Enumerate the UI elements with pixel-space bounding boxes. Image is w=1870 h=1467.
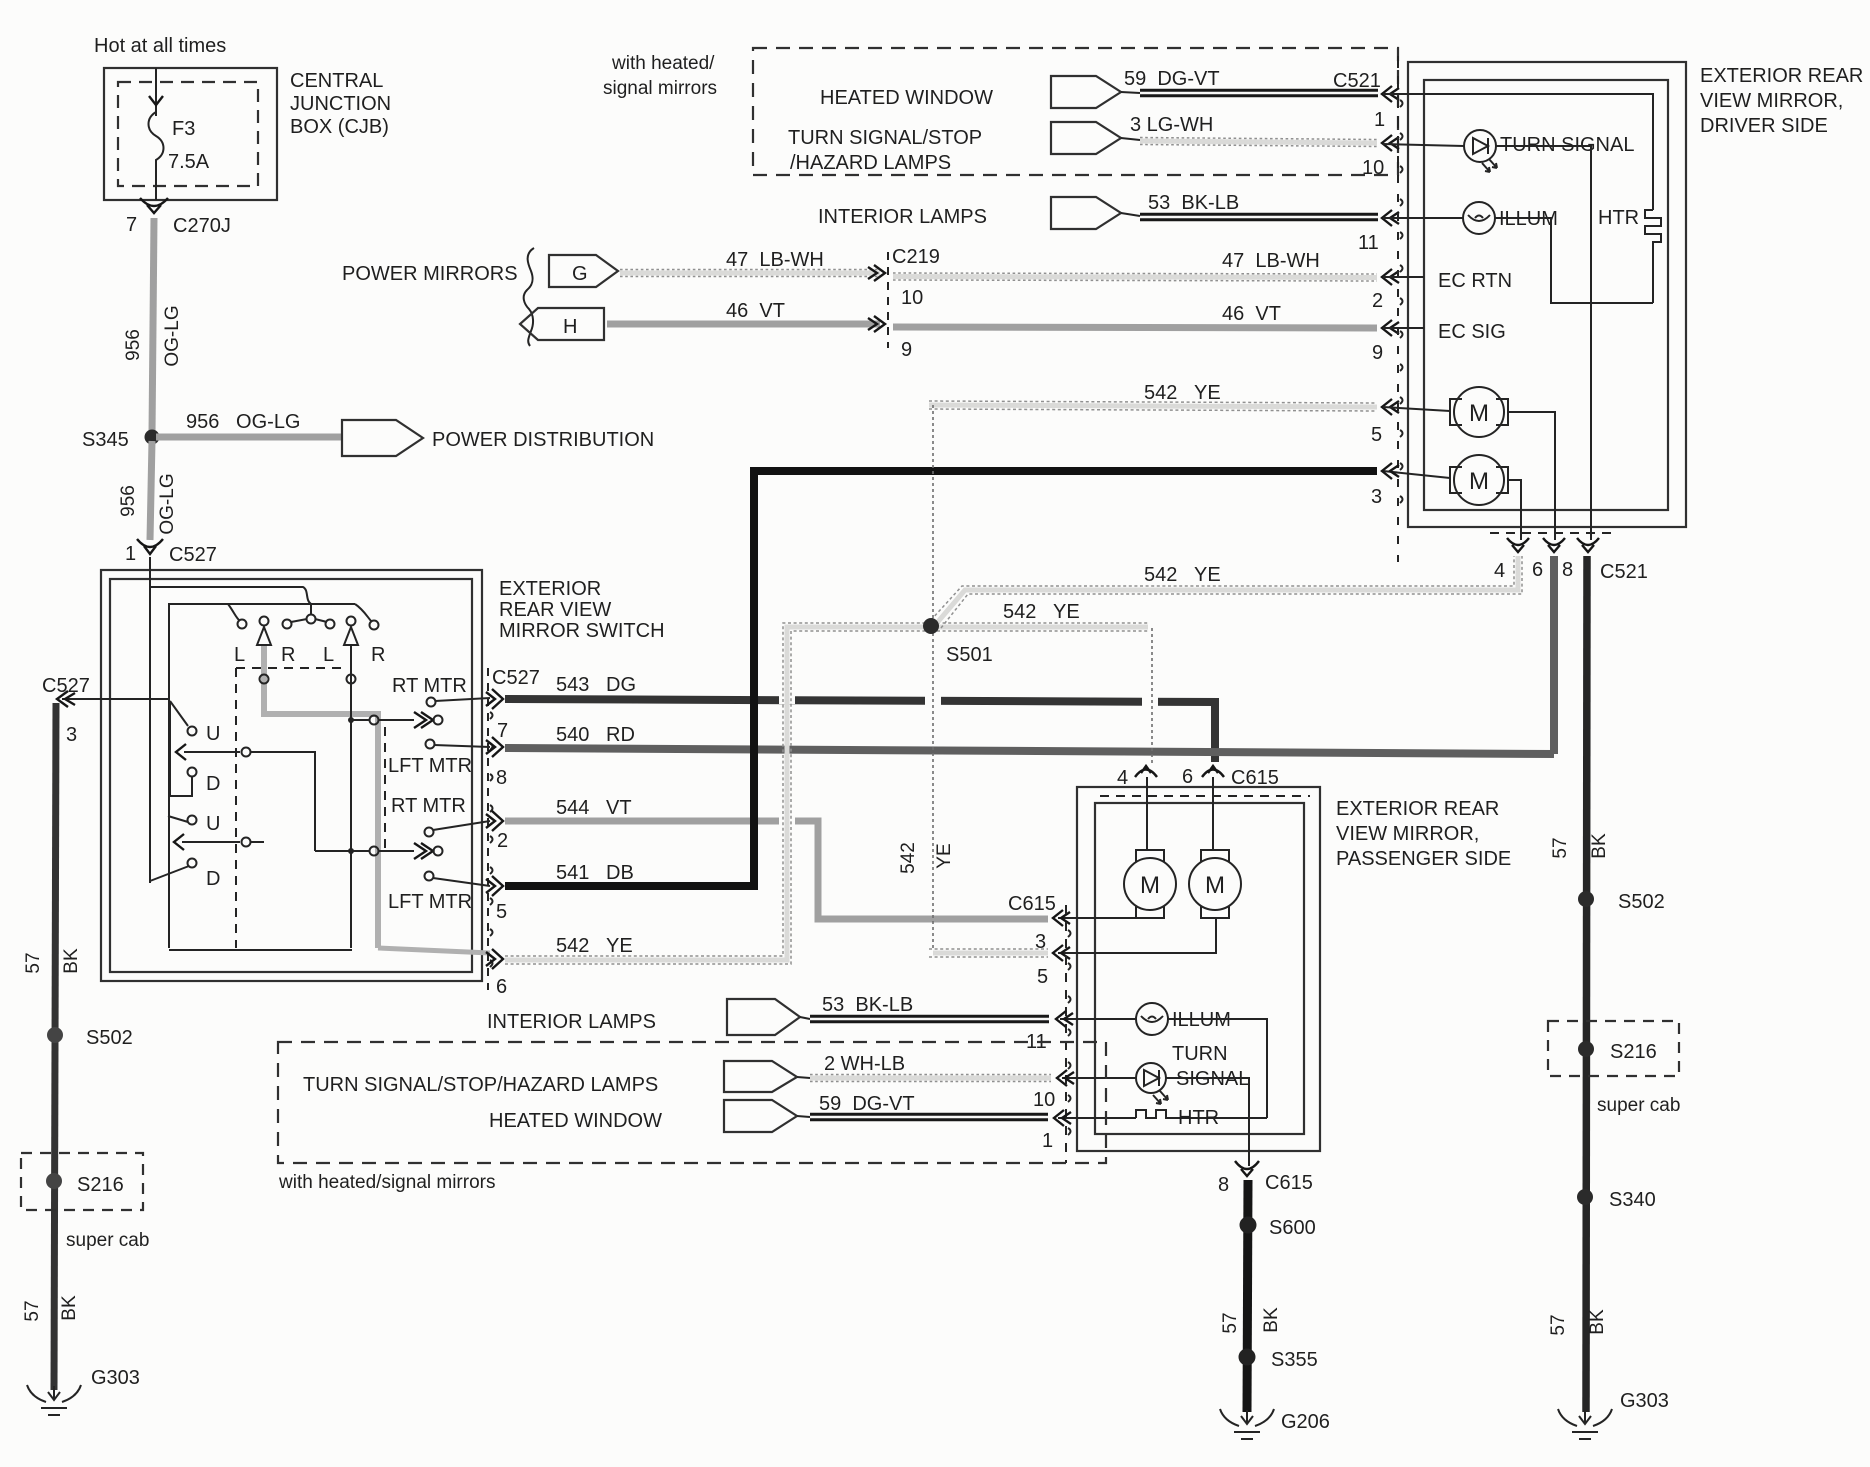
svg-text:VIEW MIRROR,: VIEW MIRROR, [1700, 90, 1843, 112]
wire crossing gaps [779, 699, 1158, 821]
splice S216 (left) [46, 1173, 62, 1189]
svg-text:542 YE: 542 YE [1144, 382, 1221, 404]
svg-text:956 OG-LG: 956 OG-LG [186, 411, 301, 433]
interior lamps connector pentagon (bottom) [727, 999, 800, 1035]
svg-text:HTR: HTR [1178, 1107, 1219, 1129]
svg-text:544 VT: 544 VT [556, 797, 632, 819]
connector C521 dashed line [1397, 56, 1399, 175]
C521 lower dashed line [1490, 532, 1614, 534]
C521 pin 4 arrow (bottom) [1507, 538, 1529, 552]
C521 pin 3 arrow [1382, 463, 1399, 479]
connector C527 tick marks [490, 712, 493, 967]
central junction box CJB inner dashed box [118, 82, 258, 186]
svg-text:542: 542 [898, 842, 919, 874]
svg-text:5: 5 [496, 901, 507, 923]
svg-text:M: M [1469, 468, 1489, 495]
svg-text:S502: S502 [1618, 891, 1665, 913]
svg-text:5: 5 [1371, 424, 1382, 446]
svg-text:9: 9 [901, 339, 912, 361]
selector arrow L2 [344, 627, 358, 645]
wiper line lower (LFT MTR) [315, 850, 369, 852]
svg-text:PASSENGER SIDE: PASSENGER SIDE [1336, 848, 1511, 870]
svg-text:POWER DISTRIBUTION: POWER DISTRIBUTION [432, 429, 654, 451]
wire 3 LG-WH [1140, 141, 1377, 143]
wire 47 LB-WH (left) [620, 271, 880, 276]
wire 956 OG-LG (S345 to C527) [150, 441, 152, 540]
C615 pin 10 arrow [1057, 1070, 1074, 1086]
C521 pin 1 arrow [1382, 86, 1399, 102]
C521 pin 8 arrow (bottom) [1577, 538, 1599, 552]
wire 46 VT (left) [607, 321, 880, 328]
C521 pin 9 arrow (EC SIG) [1382, 320, 1399, 336]
switch output LFT MTR pin 5 [425, 872, 434, 881]
label EC SIG [1383, 327, 1424, 329]
splice S502 (right) [1578, 891, 1594, 907]
svg-text:1: 1 [1042, 1130, 1053, 1152]
svg-text:CENTRAL: CENTRAL [290, 70, 383, 92]
turn signal LED (driver) [1383, 144, 1464, 146]
connector C615 tick marks [1068, 930, 1071, 1135]
svg-text:C521: C521 [1333, 70, 1381, 92]
svg-text:C615: C615 [1265, 1172, 1313, 1194]
svg-text:M: M [1140, 872, 1160, 899]
svg-text:L: L [234, 644, 245, 666]
splice S345 [145, 430, 160, 445]
interior lamps connector pentagon (top) [1051, 197, 1121, 229]
svg-text:REAR VIEW: REAR VIEW [499, 599, 611, 621]
wiper line upper (RT MTR) [348, 717, 354, 723]
svg-text:signal mirrors: signal mirrors [603, 78, 717, 99]
svg-text:/HAZARD LAMPS: /HAZARD LAMPS [790, 152, 951, 174]
wire 542 YE S501 to driver pin4 [936, 556, 1518, 624]
svg-text:R: R [281, 644, 295, 666]
svg-text:S216: S216 [77, 1174, 124, 1196]
svg-text:57: 57 [1548, 1314, 1569, 1335]
svg-text:F3: F3 [172, 118, 195, 140]
contact links [291, 605, 327, 622]
exterior rear view mirror switch outer box [101, 570, 482, 981]
svg-text:LFT MTR: LFT MTR [388, 891, 472, 913]
svg-text:EC RTN: EC RTN [1438, 270, 1512, 292]
wire 542 YE switch to S501 [505, 627, 925, 960]
svg-text:Hot at all times: Hot at all times [94, 35, 226, 57]
C615 pin 8 arrow (bottom) [1235, 1161, 1259, 1176]
svg-text:59 DG-VT: 59 DG-VT [1124, 68, 1220, 90]
svg-text:OG-LG: OG-LG [162, 305, 183, 366]
svg-text:57: 57 [1220, 1312, 1241, 1333]
svg-text:47 LB-WH: 47 LB-WH [1222, 250, 1320, 272]
svg-text:542 YE: 542 YE [1003, 601, 1080, 623]
heated window connector pentagon (bottom) [724, 1100, 797, 1132]
svg-text:542 YE: 542 YE [556, 935, 633, 957]
exterior rear view mirror passenger side outer box [1077, 787, 1320, 1151]
C615 pin 6 arrow [1202, 766, 1224, 777]
central junction box CJB outer box [104, 68, 277, 200]
wire into fuse [155, 68, 157, 116]
turn signal LED (passenger) [1062, 1077, 1136, 1079]
wire pin1 to HTR [1383, 94, 1653, 210]
U/D pole 2 [168, 816, 188, 822]
svg-text:S600: S600 [1269, 1217, 1316, 1239]
svg-text:S502: S502 [86, 1027, 133, 1049]
svg-text:53 BK-LB: 53 BK-LB [1148, 192, 1239, 214]
svg-text:super cab: super cab [66, 1230, 149, 1251]
switch contact hook right [355, 604, 372, 622]
connector H [520, 308, 604, 340]
svg-text:6: 6 [496, 976, 507, 998]
exterior rear view mirror passenger side inner box [1095, 803, 1304, 1134]
brace [524, 248, 534, 346]
wire 544 VT [505, 821, 1048, 919]
C219 pin 10 arrow [868, 265, 885, 281]
svg-text:2: 2 [1372, 290, 1383, 312]
motor lower (driver) [1383, 471, 1450, 478]
svg-text:542 YE: 542 YE [1144, 564, 1221, 586]
C615 upper dashed line [1100, 795, 1310, 797]
wire 540 RD riser [1550, 556, 1558, 754]
connector S216 dashed box (right) [1548, 1021, 1679, 1076]
switch contact hook left [228, 604, 240, 621]
svg-text:9: 9 [1372, 342, 1383, 364]
C615 pin 3 wire [1058, 917, 1147, 919]
wire 543 DG [505, 699, 1215, 762]
svg-text:TURN: TURN [1172, 1043, 1228, 1065]
svg-text:7: 7 [126, 214, 137, 236]
svg-text:6: 6 [1532, 559, 1543, 581]
exterior rear view mirror driver side inner box [1424, 80, 1668, 510]
svg-text:4: 4 [1494, 560, 1505, 582]
wire 46 VT (right) [893, 327, 1377, 328]
svg-text:C270J: C270J [173, 215, 231, 237]
heater element HTR (driver) [1645, 210, 1661, 303]
C219 pin 9 arrow [868, 316, 885, 332]
svg-text:YE: YE [934, 843, 955, 868]
svg-text:11: 11 [1358, 232, 1379, 254]
wire 541 DB [505, 471, 1377, 886]
svg-text:8: 8 [1218, 1174, 1229, 1196]
wire 956 OG-LG (S345 to power distribution) [156, 434, 342, 441]
svg-text:540 RD: 540 RD [556, 724, 635, 746]
selector pole line right [350, 645, 352, 948]
heater element HTR (passenger) [1058, 1117, 1136, 1119]
svg-text:C521: C521 [1600, 561, 1648, 583]
splice S501 [923, 618, 939, 634]
heated window connector pentagon [1051, 76, 1121, 108]
svg-text:G206: G206 [1281, 1411, 1330, 1433]
svg-text:46 VT: 46 VT [1222, 303, 1281, 325]
label EC RTN [1383, 276, 1424, 278]
C615 pin 11 arrow [1056, 1011, 1073, 1027]
C615 pin 5 wire [1058, 918, 1216, 953]
connector C527 dashed line at switch [487, 668, 489, 990]
dashed option box (top) [753, 48, 1398, 175]
svg-text:HTR: HTR [1598, 207, 1639, 229]
fuse F3 7.5A [149, 112, 164, 200]
svg-text:7: 7 [497, 720, 508, 742]
svg-text:47 LB-WH: 47 LB-WH [726, 249, 824, 271]
svg-text:1: 1 [1374, 109, 1385, 131]
svg-text:57: 57 [22, 1300, 43, 1321]
svg-text:U: U [206, 813, 220, 835]
svg-text:with heated/: with heated/ [611, 53, 715, 74]
svg-text:956: 956 [118, 485, 139, 517]
dashed option box (bottom) [278, 1042, 1106, 1163]
svg-text:JUNCTION: JUNCTION [290, 93, 391, 115]
switch mechanism box [169, 604, 355, 948]
connector C219 dashed line [887, 252, 889, 348]
switch output LFT MTR pin 8 [426, 740, 435, 749]
svg-text:OG-LG: OG-LG [157, 473, 178, 534]
svg-text:4: 4 [1117, 767, 1128, 789]
svg-text:HEATED WINDOW: HEATED WINDOW [489, 1110, 662, 1132]
wire 57 BK (left) [54, 703, 56, 1390]
wire 59 DG-VT (bottom) [810, 1113, 1048, 1122]
svg-text:6: 6 [1182, 766, 1193, 788]
svg-text:BK: BK [61, 948, 82, 974]
wire 53 BK-LB (bottom) [810, 1015, 1049, 1024]
svg-text:5: 5 [1037, 966, 1048, 988]
svg-text:R: R [371, 644, 385, 666]
svg-text:M: M [1469, 400, 1489, 427]
motor right (passenger) [1212, 777, 1214, 850]
wire 540 RD [505, 748, 1554, 754]
wire 47 LB-WH (right) [893, 277, 1377, 278]
svg-text:7.5A: 7.5A [168, 151, 210, 173]
exterior rear view mirror switch inner box [110, 579, 472, 972]
wire 542 YE inside switch (gray) [264, 646, 378, 948]
exterior rear view mirror driver side outer box [1408, 62, 1686, 527]
svg-text:53 BK-LB: 53 BK-LB [822, 994, 913, 1016]
svg-text:G303: G303 [1620, 1390, 1669, 1412]
svg-text:C527: C527 [492, 667, 540, 689]
splice S600 [1240, 1217, 1257, 1234]
svg-text:VIEW MIRROR,: VIEW MIRROR, [1336, 823, 1479, 845]
svg-text:8: 8 [496, 767, 507, 789]
svg-text:super cab: super cab [1597, 1095, 1680, 1116]
svg-text:H: H [563, 316, 577, 338]
svg-text:INTERIOR LAMPS: INTERIOR LAMPS [487, 1011, 656, 1033]
svg-text:G: G [572, 263, 588, 285]
svg-text:57: 57 [23, 952, 44, 973]
wire 542 YE to driver pin 5 [929, 405, 1377, 407]
svg-text:C219: C219 [892, 246, 940, 268]
svg-text:M: M [1205, 872, 1225, 899]
splice S216 (right) [1578, 1041, 1594, 1057]
svg-text:S340: S340 [1609, 1189, 1656, 1211]
svg-text:HEATED WINDOW: HEATED WINDOW [820, 87, 993, 109]
svg-text:C615: C615 [1008, 893, 1056, 915]
svg-text:956: 956 [123, 329, 144, 361]
splice S340 [1577, 1189, 1593, 1205]
connector G [549, 255, 618, 287]
svg-text:BK: BK [1589, 833, 1610, 859]
svg-text:59 DG-VT: 59 DG-VT [819, 1093, 915, 1115]
svg-text:L: L [323, 644, 334, 666]
svg-text:543 DG: 543 DG [556, 674, 636, 696]
wire 956 OG-LG (fuse to S345) [152, 218, 154, 434]
svg-text:BOX (CJB): BOX (CJB) [290, 116, 389, 138]
svg-text:U: U [206, 723, 220, 745]
C521 pin 2 arrow (EC RTN) [1382, 269, 1399, 285]
connector C527 pin 1 arrow [137, 539, 163, 547]
wire 57 BK (passenger) [1247, 1180, 1248, 1412]
svg-text:C527: C527 [169, 544, 217, 566]
svg-text:EC SIG: EC SIG [1438, 321, 1506, 343]
C521 pin 5 arrow [1382, 399, 1399, 415]
turn signal connector pentagon [1051, 122, 1121, 154]
svg-text:1: 1 [125, 543, 136, 565]
svg-text:RT MTR: RT MTR [391, 795, 466, 817]
svg-text:8: 8 [1562, 559, 1573, 581]
dashed guide lines inside switch [236, 667, 345, 669]
svg-text:D: D [206, 868, 220, 890]
svg-text:DRIVER SIDE: DRIVER SIDE [1700, 115, 1828, 137]
turn signal connector pentagon (bottom) [724, 1061, 797, 1092]
wire 53 BK-LB (top) [1140, 213, 1378, 222]
svg-text:2: 2 [497, 830, 508, 852]
svg-text:10: 10 [901, 287, 923, 309]
switch feed wire from pin 1 [149, 557, 151, 883]
splice S355 [1239, 1349, 1256, 1366]
svg-text:10: 10 [1033, 1089, 1055, 1111]
svg-text:3: 3 [66, 724, 77, 746]
svg-text:S501: S501 [946, 644, 993, 666]
svg-text:TURN SIGNAL/STOP: TURN SIGNAL/STOP [788, 127, 982, 149]
connector C615 dashed line [1065, 905, 1067, 1163]
svg-text:LFT MTR: LFT MTR [388, 755, 472, 777]
svg-text:RT MTR: RT MTR [392, 675, 467, 697]
svg-text:EXTERIOR REAR: EXTERIOR REAR [1336, 798, 1499, 820]
illumination lamp ILLUM (driver) [1383, 217, 1463, 219]
svg-text:TURN SIGNAL/STOP/HAZARD LAMPS: TURN SIGNAL/STOP/HAZARD LAMPS [303, 1074, 658, 1096]
svg-text:3 LG-WH: 3 LG-WH [1130, 114, 1213, 136]
switch contacts row [238, 620, 247, 629]
wire 2 WH-LB [810, 1076, 1051, 1081]
splice S502 (left) [47, 1027, 63, 1043]
svg-text:S345: S345 [82, 429, 129, 451]
illumination lamp ILLUM (passenger) [1060, 1018, 1136, 1020]
motor left (passenger) [1146, 777, 1148, 850]
svg-text:46 VT: 46 VT [726, 300, 785, 322]
svg-text:G303: G303 [91, 1367, 140, 1389]
connector C270J arrow [140, 198, 168, 206]
C521 pin 11 arrow [1382, 210, 1399, 226]
selector arrow L1 [257, 627, 271, 645]
motor upper (driver) [1383, 407, 1450, 411]
svg-text:C615: C615 [1231, 767, 1279, 789]
svg-text:D: D [206, 773, 220, 795]
C615 pin 1 arrow [1054, 1110, 1071, 1126]
svg-text:with heated/signal mirrors: with heated/signal mirrors [278, 1172, 495, 1193]
wire 542 YE S501 to passenger pin4 [937, 625, 1148, 630]
connector S216 dashed box (left) [21, 1153, 143, 1210]
svg-text:BK: BK [59, 1295, 80, 1321]
svg-text:BK: BK [1261, 1307, 1282, 1333]
svg-text:541 DB: 541 DB [556, 862, 634, 884]
svg-text:S216: S216 [1610, 1041, 1657, 1063]
svg-text:BK: BK [1587, 1309, 1608, 1335]
U/D pole 1 [62, 698, 169, 700]
svg-text:3: 3 [1371, 486, 1382, 508]
svg-text:MIRROR SWITCH: MIRROR SWITCH [499, 620, 665, 642]
svg-text:S355: S355 [1271, 1349, 1318, 1371]
wire 59 DG-VT (top) [1140, 89, 1378, 98]
svg-text:10: 10 [1362, 157, 1384, 179]
svg-text:POWER MIRRORS: POWER MIRRORS [342, 263, 518, 285]
svg-text:3: 3 [1035, 931, 1046, 953]
wire 542 YE riser to driver pin5 and down to passenger pin5 [933, 951, 1048, 956]
C615 pin 4 arrow [1135, 766, 1157, 777]
power distribution connector [342, 420, 423, 456]
svg-text:57: 57 [1550, 837, 1571, 858]
C521 pin 10 arrow [1382, 135, 1399, 151]
C521 pin 6 arrow (bottom) [1543, 538, 1565, 552]
svg-text:INTERIOR LAMPS: INTERIOR LAMPS [818, 206, 987, 228]
svg-text:EXTERIOR: EXTERIOR [499, 578, 601, 600]
svg-text:EXTERIOR REAR: EXTERIOR REAR [1700, 65, 1863, 87]
svg-text:2 WH-LB: 2 WH-LB [824, 1053, 905, 1075]
connector C521 tick marks [1400, 100, 1403, 503]
wire 57 BK (right) [1586, 556, 1587, 1412]
